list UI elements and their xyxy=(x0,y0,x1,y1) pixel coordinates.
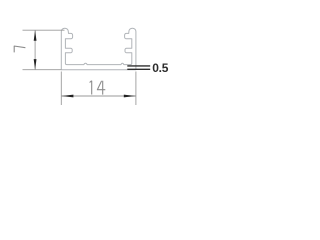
arrow left xyxy=(61,95,73,98)
svg-text:0.5: 0.5 xyxy=(152,61,168,75)
0.5 leader lines xyxy=(127,65,150,67)
profile outline xyxy=(61,28,136,70)
dim 7 extension top xyxy=(23,29,65,31)
arrow down xyxy=(34,59,37,70)
arrow right xyxy=(124,95,136,98)
dim 14 extension right xyxy=(135,72,137,106)
text 14 (strokes) xyxy=(90,81,106,95)
dim 7 line xyxy=(34,30,36,69)
dim 14 line xyxy=(61,95,136,97)
dim 14 extension left xyxy=(60,72,62,106)
arrow up xyxy=(34,30,37,41)
dim 7 extension bottom xyxy=(23,69,62,71)
text 7 (rotated strokes) xyxy=(14,46,25,53)
